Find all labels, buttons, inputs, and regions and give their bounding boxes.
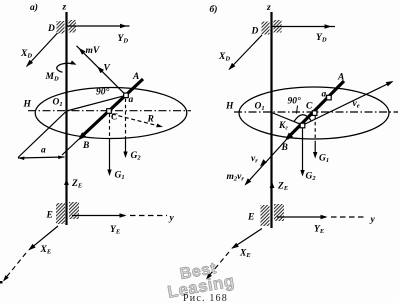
reaction Y_E (left) wire: [72, 215, 125, 217]
horizontal plane axis H dash-dot (left): [28, 110, 191, 112]
svg-text:B: B: [82, 141, 89, 151]
weight G1 arrow (left): [109, 139, 111, 175]
point C marker (left): [107, 109, 112, 114]
reaction X_D (right) wire: [229, 35, 262, 70]
weight G2 hanger dashed (left): [125, 99, 127, 139]
svg-text:C: C: [306, 102, 313, 112]
svg-text:Рис. 168: Рис. 168: [183, 293, 228, 303]
vector v_r arrowhead: [260, 159, 267, 166]
rod AB (left): [81, 79, 144, 138]
vector v_e arrowhead: [386, 81, 394, 86]
vector V arrowhead: [97, 66, 104, 73]
svg-text:H: H: [23, 100, 32, 110]
right angle arc (right): [294, 115, 311, 122]
rod extension to axis (left): [62, 139, 79, 155]
axis x dashed (left): [4, 253, 26, 280]
shaft DE axis (left): [65, 12, 67, 225]
dimension a line (left): [18, 157, 65, 158]
svg-text:A: A: [337, 73, 344, 83]
axis x arrowhead (left): [3, 275, 9, 281]
rod B end arrowhead (right): [285, 133, 293, 141]
bearing E (right) hatched blocks: [261, 205, 270, 226]
rod AB (right): [287, 81, 344, 139]
reaction Y_E (right) arrowhead: [321, 215, 328, 219]
svg-text:a: a: [322, 90, 327, 100]
svg-text:y: y: [370, 215, 376, 225]
reaction Y_D (right) arrowhead: [325, 24, 332, 28]
line O1 to Q (left): [67, 95, 127, 111]
weight G1 arrow (right): [314, 144, 316, 157]
reaction X_D (left) wire: [27, 33, 58, 67]
axis y dashed (left): [130, 215, 167, 217]
weight G2 arrow (right): [302, 128, 304, 175]
line through O1 parallel to rod (left): [18, 111, 67, 158]
svg-text:y: y: [169, 214, 175, 224]
svg-text:90°: 90°: [288, 96, 302, 107]
label 90 deg leader (right): [297, 106, 298, 114]
vector mV arrowhead: [79, 48, 86, 55]
rod B end arrowhead (left): [78, 132, 86, 140]
svg-text:R: R: [147, 115, 154, 125]
svg-text:D: D: [47, 24, 55, 34]
reaction Y_D (left) wire: [68, 25, 130, 27]
point Q marker (left): [124, 93, 129, 98]
svg-text:90°: 90°: [96, 87, 110, 98]
reaction X_D (right) arrowhead: [229, 63, 236, 70]
svg-text:a: a: [41, 146, 46, 156]
axis y dashed (right): [331, 216, 367, 218]
svg-text:V: V: [104, 64, 111, 74]
horizontal plane axis H dash-dot (right): [234, 111, 398, 113]
disk circle ellipse (right): [239, 87, 389, 139]
svg-text:E: E: [247, 213, 254, 223]
reaction X_E (right) arrowhead: [231, 243, 239, 249]
svg-text:mV: mV: [86, 46, 100, 56]
shaft DE axis (right): [270, 12, 272, 228]
svg-text:A: A: [132, 72, 139, 82]
point a marker (right): [327, 95, 332, 100]
disk circle ellipse (left): [35, 88, 187, 139]
radius R dashed arrow (left): [112, 114, 160, 126]
svg-text:a: a: [129, 95, 134, 105]
svg-text:D: D: [251, 27, 259, 37]
bearing E (left) hatched blocks: [56, 203, 65, 224]
svg-text:z: z: [266, 3, 271, 13]
reaction X_E (left) wire: [29, 226, 58, 250]
axis x dashed (right): [208, 252, 230, 278]
reaction Z_E arrowhead (right): [270, 182, 275, 189]
vector mV line (left): [77, 46, 127, 96]
rotation arrow M_D (left): [57, 63, 74, 72]
weight G1 hanger dashed (left): [109, 114, 111, 139]
reaction Y_D (right) wire: [273, 26, 336, 28]
reaction Z_E arrowhead (left): [64, 179, 69, 186]
weight G1 hanger dashed (right): [314, 116, 316, 144]
svg-text:а): а): [30, 2, 38, 13]
point K marker (right): [300, 123, 305, 128]
relative velocity line (right): [246, 140, 287, 185]
weight G2 arrow (left): [125, 139, 127, 157]
reaction X_E (left) arrowhead: [28, 244, 35, 251]
reaction Y_E (left) arrowhead: [120, 213, 127, 217]
svg-text:z: z: [62, 3, 67, 13]
transport velocity v_e line (right): [303, 82, 392, 125]
svg-text:б): б): [210, 4, 218, 15]
reaction Y_E (right) wire: [277, 216, 326, 218]
reaction X_D (left) arrowhead: [26, 60, 33, 67]
line O1 to K point (right): [272, 113, 303, 125]
reaction X_E (right) wire: [232, 229, 262, 249]
bearing D (right) hatched blocks: [262, 22, 270, 35]
axis x end dot (left): [0, 281, 3, 284]
axis x arrowhead (right): [206, 273, 212, 279]
reaction Y_D (left) arrowhead: [120, 24, 127, 28]
svg-text:H: H: [225, 102, 234, 112]
vector m2v_r arrowhead: [245, 178, 252, 185]
point C marker (right): [312, 111, 317, 116]
bearing D (left) hatched blocks: [57, 21, 65, 34]
svg-text:E: E: [46, 211, 53, 221]
